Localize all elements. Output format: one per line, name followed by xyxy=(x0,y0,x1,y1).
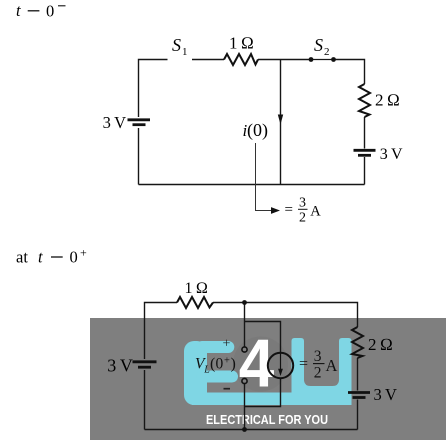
wire bottom xyxy=(145,429,358,431)
svg-text:3: 3 xyxy=(299,196,306,211)
svg-text:(0): (0) xyxy=(247,120,268,141)
logo dark circle behind 4 xyxy=(233,337,288,392)
svg-text:0: 0 xyxy=(216,355,224,372)
wire resistor to right corner xyxy=(213,303,358,328)
wire bottom xyxy=(139,184,365,186)
svg-text:2: 2 xyxy=(299,211,306,226)
logo letter E xyxy=(184,341,238,405)
wire right battery to bottom corner xyxy=(364,157,366,185)
current arrow on middle branch xyxy=(278,115,283,125)
battery 3V (top right) xyxy=(354,150,376,155)
resistor 2ohm (bottom) xyxy=(352,327,363,358)
wire resistor 2ohm to battery right xyxy=(364,117,366,149)
battery 3V (bottom right) xyxy=(348,393,370,398)
label minus xyxy=(224,388,231,390)
svg-text:3 V: 3 V xyxy=(107,356,133,376)
wire battery left to bottom xyxy=(144,370,146,430)
wire S1 to resistor R1 xyxy=(192,59,224,61)
node dot top xyxy=(242,300,247,305)
svg-text:2: 2 xyxy=(314,365,322,382)
svg-text:3: 3 xyxy=(314,348,322,365)
resistor 2ohm (top right) xyxy=(359,84,370,117)
svg-text:t: t xyxy=(38,247,43,266)
battery B1 3V (top left) xyxy=(128,120,151,125)
wire S2 to top-right corner down xyxy=(334,60,365,85)
logo letter U xyxy=(292,338,352,405)
wire resistor R1 to node xyxy=(258,59,311,61)
watermark gray box xyxy=(90,318,446,440)
svg-text:3 V: 3 V xyxy=(374,385,398,404)
svg-text:+: + xyxy=(224,355,230,366)
current source arrow xyxy=(280,353,282,370)
svg-text:+: + xyxy=(223,337,231,352)
svg-text:3 V: 3 V xyxy=(103,113,127,132)
svg-text:A: A xyxy=(326,356,338,375)
svg-text:2 Ω: 2 Ω xyxy=(368,335,393,354)
svg-text:1: 1 xyxy=(182,46,188,58)
resistor R1 1ohm (top) xyxy=(224,54,258,65)
leader arrow i(0) xyxy=(256,143,273,211)
resistor 1ohm (bottom) xyxy=(177,297,213,308)
svg-text:A: A xyxy=(310,203,321,219)
svg-text:S: S xyxy=(172,35,181,55)
svg-text:+: + xyxy=(80,246,87,260)
wire middle branch upper xyxy=(244,303,246,348)
svg-text:2: 2 xyxy=(324,46,330,58)
label at t-0plus xyxy=(16,246,87,267)
svg-text:0: 0 xyxy=(70,247,78,266)
switch S2 contact dots xyxy=(309,57,314,62)
wire middle branch xyxy=(280,60,282,185)
current source circle xyxy=(268,353,293,378)
terminal lower xyxy=(242,378,247,383)
svg-text:=: = xyxy=(285,202,293,218)
svg-text:3 V: 3 V xyxy=(380,146,403,163)
wire top-left to switch S1 xyxy=(139,60,168,118)
svg-text:=: = xyxy=(299,355,308,372)
svg-text:1 Ω: 1 Ω xyxy=(229,33,254,52)
wire middle branch lower xyxy=(244,383,246,429)
svg-text:at: at xyxy=(16,247,28,266)
wire switch S2 blade xyxy=(311,59,334,61)
wire 2ohm to battery right xyxy=(357,358,359,391)
svg-text:2 Ω: 2 Ω xyxy=(375,91,400,110)
node dot bottom xyxy=(242,427,247,432)
svg-text:t: t xyxy=(16,1,21,20)
wire top-left xyxy=(145,303,178,360)
logo bottom band E to U xyxy=(192,393,352,406)
label =3/2 A (top) xyxy=(285,196,322,226)
svg-text:S: S xyxy=(314,35,323,55)
svg-text:ELECTRICAL FOR YOU: ELECTRICAL FOR YOU xyxy=(206,412,328,427)
svg-text:0: 0 xyxy=(46,2,54,21)
wire battery to bottom-left corner xyxy=(138,128,140,185)
wire loop around current source xyxy=(245,322,281,353)
wire right battery to bottom xyxy=(357,400,359,430)
svg-text:1 Ω: 1 Ω xyxy=(185,280,209,297)
label VL(0+) xyxy=(195,355,236,375)
terminal upper xyxy=(242,347,247,352)
battery 3V (bottom left) xyxy=(133,362,157,367)
svg-text:): ) xyxy=(231,356,236,373)
label =3/2 A (bottom) xyxy=(299,348,338,382)
label t-0minus xyxy=(16,1,66,21)
